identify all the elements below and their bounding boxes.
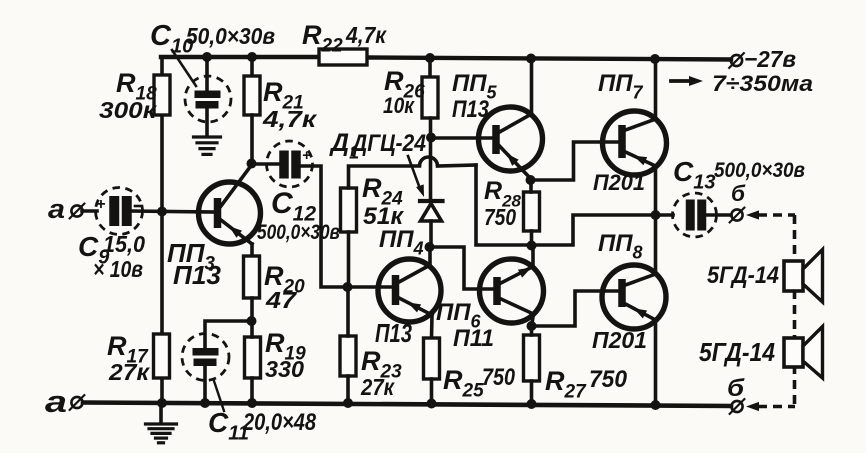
wire R25 bottom to rail xyxy=(430,379,434,403)
svg-text:ПП7: ПП7 xyxy=(598,70,644,103)
leader line C11 label xyxy=(214,381,224,411)
svg-text:б: б xyxy=(727,375,745,402)
wire C11 top link xyxy=(205,321,251,349)
node R27 bottom rail junction xyxy=(527,399,537,409)
svg-text:300к: 300к xyxy=(99,97,158,123)
capacitor C11 20,0x48 electrolytic xyxy=(182,334,229,381)
wire rail to PP7 collector xyxy=(654,59,658,119)
wire R28 bottom xyxy=(530,231,534,245)
terminal output b (lower) xyxy=(731,401,742,412)
node R23 bottom rail junction xyxy=(343,398,353,408)
wire midpoint down to PP8 xyxy=(654,215,658,274)
arrow supply current xyxy=(671,79,693,83)
transistor PP5 collector line xyxy=(500,114,532,132)
transistor PP8 collector line xyxy=(626,274,656,285)
wire C11 bottom stem xyxy=(203,365,207,403)
wire C12 to PP4 base xyxy=(300,166,393,287)
terminal output b (upper) xyxy=(731,209,742,220)
resistor R20 xyxy=(244,256,260,298)
svg-text:−27в: −27в xyxy=(744,46,796,72)
svg-text:330: 330 xyxy=(265,356,304,382)
svg-text:5ГД-14: 5ГД-14 xyxy=(707,262,779,289)
transistor PP4 emitter line xyxy=(399,298,432,315)
wire R17 to bottom rail xyxy=(160,378,164,403)
node PP4 collector junction xyxy=(425,242,435,252)
wire dashed speaker feed top xyxy=(758,213,795,217)
wire dashed return bottom xyxy=(758,405,795,409)
svg-text:27к: 27к xyxy=(360,374,395,400)
loudspeaker Gr1 5GD-14 xyxy=(784,261,803,291)
wire base link to PP5 xyxy=(431,136,494,140)
node R19 bottom rail junction xyxy=(247,398,257,408)
wire R28 top xyxy=(529,180,533,192)
wire diode node down to R28 node xyxy=(476,165,531,245)
wire R21 bottom to collector node xyxy=(250,115,254,163)
transistor PP7 emitter line xyxy=(626,152,656,166)
transistor PP6 body xyxy=(480,259,544,323)
wire collector node to C12 xyxy=(252,162,282,166)
wire R20 bottom xyxy=(250,298,254,322)
svg-text:5ГД-14: 5ГД-14 xyxy=(699,337,775,367)
terminal input a (upper) xyxy=(71,205,82,216)
transistor PP5 body xyxy=(479,107,543,171)
loudspeaker Gr2 5GD-14 xyxy=(784,338,803,367)
svg-text:П13: П13 xyxy=(173,260,222,290)
svg-text:10к: 10к xyxy=(383,93,416,118)
svg-text:27к: 27к xyxy=(108,359,151,385)
svg-text:500,0×30в: 500,0×30в xyxy=(714,159,805,182)
wire C13 to output terminal xyxy=(706,213,731,217)
svg-text:C13: C13 xyxy=(673,156,715,194)
wire C10 bottom stem xyxy=(205,108,209,134)
arrow into terminal b upper xyxy=(746,210,759,219)
transistor PP4 collector line xyxy=(399,248,430,282)
wire R27 bottom to rail xyxy=(530,381,534,404)
svg-text:7÷350ма: 7÷350ма xyxy=(712,71,813,96)
transistor PP4 body xyxy=(378,259,441,322)
wire bottom common rail xyxy=(83,403,731,407)
node C10 top rail junction xyxy=(202,52,212,62)
resistor R19 xyxy=(245,337,261,378)
svg-text:ПП4: ПП4 xyxy=(379,226,424,259)
diode D1 DGC-24 xyxy=(420,199,443,203)
wire PP6 emitter up link xyxy=(531,245,535,266)
transistor PP3 collector line xyxy=(221,165,252,206)
capacitor C12 500,0x30v electrolytic xyxy=(267,141,313,187)
wire R24 top to diode node with hop xyxy=(349,166,420,188)
svg-text:+: + xyxy=(302,147,311,164)
wire emitter node to PP7 base xyxy=(531,142,619,180)
transistor PP6 base bar xyxy=(493,277,501,305)
terminal input a (lower) xyxy=(71,397,82,408)
wire R26 bottom to diode xyxy=(429,118,433,199)
resistor R22 xyxy=(319,49,367,65)
node output midpoint C13 junction xyxy=(651,210,661,220)
transistor PP5 emitter line xyxy=(500,146,531,178)
svg-text:a: a xyxy=(45,384,67,419)
node PP6 collector junction xyxy=(527,321,537,331)
svg-text:500,0×30в: 500,0×30в xyxy=(257,221,340,244)
svg-text:× 10в: × 10в xyxy=(93,256,143,282)
svg-text:П13: П13 xyxy=(452,96,490,123)
capacitor C10 50,0x30v electrolytic xyxy=(185,76,231,122)
node R25 bottom rail junction xyxy=(427,399,437,409)
wire R19 bottom to rail xyxy=(250,378,254,403)
wire R28 node to output midpoint xyxy=(532,215,656,245)
wire C10 top stem xyxy=(205,57,209,91)
svg-text:б: б xyxy=(731,181,746,206)
node PP7 rail junction xyxy=(650,54,660,64)
wire dashed speaker vertical xyxy=(793,215,797,262)
transistor PP3 body xyxy=(199,182,261,244)
svg-text:750: 750 xyxy=(484,204,516,230)
transistor PP8 base bar xyxy=(618,279,626,307)
resistor R23 xyxy=(340,336,356,376)
node emitter bypass junction xyxy=(247,316,257,326)
transistor PP6 emitter line xyxy=(501,267,533,284)
node R24 base junction xyxy=(343,282,353,292)
svg-text:П11: П11 xyxy=(453,325,494,352)
wire diode to PP4 collector node xyxy=(429,221,433,247)
leader line C10 label xyxy=(172,50,196,86)
node R21 top rail junction xyxy=(247,52,257,62)
wire R23 top xyxy=(346,287,350,336)
wire collector node to PP6 base xyxy=(430,247,496,289)
resistor R25 xyxy=(424,338,440,379)
node PP5 base junction xyxy=(426,133,436,143)
wire R19 top xyxy=(250,321,254,337)
resistor R21 xyxy=(244,76,260,115)
svg-text:750: 750 xyxy=(482,364,516,391)
node R28 bottom junction xyxy=(527,241,537,251)
transistor PP8 body xyxy=(602,265,666,329)
resistor R27 xyxy=(524,335,540,381)
wire R18 branch vertical xyxy=(160,57,164,334)
node C11 bottom rail junction xyxy=(200,398,210,408)
resistor R24 xyxy=(341,188,357,232)
wire PP4 emitter to R25 xyxy=(430,315,434,338)
svg-text:П201: П201 xyxy=(592,327,647,353)
wire PP7 emitter to midpoint xyxy=(654,166,658,215)
node R26 top rail junction xyxy=(425,53,435,63)
transistor PP7 collector line xyxy=(626,119,656,130)
node input junction xyxy=(157,207,167,217)
transistor PP8 emitter line xyxy=(626,304,656,320)
wire midpoint to C13 xyxy=(655,213,673,217)
svg-text:4,7к: 4,7к xyxy=(345,22,387,48)
arrow into terminal b lower xyxy=(746,402,759,411)
transistor U PP3 base bar xyxy=(214,198,222,228)
wire R21 top xyxy=(250,57,254,76)
transistor PP5 base bar xyxy=(492,125,500,154)
resistor R18 xyxy=(154,75,170,115)
resistor R26 xyxy=(422,77,438,118)
capacitor C13 500,0x30v electrolytic xyxy=(673,193,717,237)
transistor PP6 collector line xyxy=(501,299,534,326)
svg-text:R25: R25 xyxy=(443,365,484,402)
svg-text:+: + xyxy=(96,196,105,213)
resistor R28 xyxy=(524,192,540,231)
transistor PP7 body xyxy=(603,111,667,175)
terminal -27v supply xyxy=(731,55,742,66)
svg-text:П13: П13 xyxy=(375,318,412,348)
svg-text:R27: R27 xyxy=(545,366,587,403)
wire PP8 emitter to bottom rail xyxy=(654,320,658,405)
wire top supply rail right segment xyxy=(367,58,731,60)
svg-text:4,7к: 4,7к xyxy=(262,106,318,132)
transistor PP4 base bar xyxy=(392,275,400,305)
leader arrow D1 label xyxy=(408,156,419,186)
wire R26 top xyxy=(428,58,432,77)
svg-text:50,0×30в: 50,0×30в xyxy=(186,23,275,49)
transistor PP3 emitter line xyxy=(221,220,252,244)
svg-text:a: a xyxy=(48,194,65,224)
node PP5 emitter junction xyxy=(526,175,536,185)
node PP8 bottom rail junction xyxy=(651,400,661,410)
svg-text:C12: C12 xyxy=(271,187,316,226)
resistor R17 xyxy=(154,334,170,378)
svg-text:20,0×48: 20,0×48 xyxy=(242,409,316,436)
wire R27 top xyxy=(530,326,534,335)
node PP5 collector rail junction xyxy=(526,54,536,64)
svg-text:750: 750 xyxy=(589,366,628,393)
wire PP3 emitter to R20 xyxy=(250,244,254,257)
svg-text:ПП8: ПП8 xyxy=(598,230,643,263)
transistor PP7 base bar xyxy=(618,125,626,158)
wire R23 bottom to rail xyxy=(346,376,350,403)
svg-text:ДГЦ-24: ДГЦ-24 xyxy=(350,130,426,157)
svg-text:П201: П201 xyxy=(593,170,645,195)
svg-text:R22: R22 xyxy=(302,20,343,57)
ground symbol under C10 xyxy=(194,135,221,138)
node PP3 collector junction xyxy=(247,159,257,169)
svg-text:47: 47 xyxy=(265,287,298,313)
polarity minus mark C9 xyxy=(135,205,142,208)
wire PP5 collector to top rail xyxy=(530,58,534,115)
wire PP6 collector to PP8 base xyxy=(532,291,620,326)
capacitor C9 15,0x10v electrolytic xyxy=(96,188,143,235)
wire input a to C9 xyxy=(82,209,97,213)
wire C9 to base node PP3 xyxy=(131,211,215,212)
svg-text:15,0: 15,0 xyxy=(103,231,145,257)
wire R24 bottom xyxy=(347,232,351,287)
wire top supply rail left segment xyxy=(161,55,319,59)
ground symbol bottom left xyxy=(159,403,163,422)
node R17 bottom rail junction xyxy=(157,398,167,408)
